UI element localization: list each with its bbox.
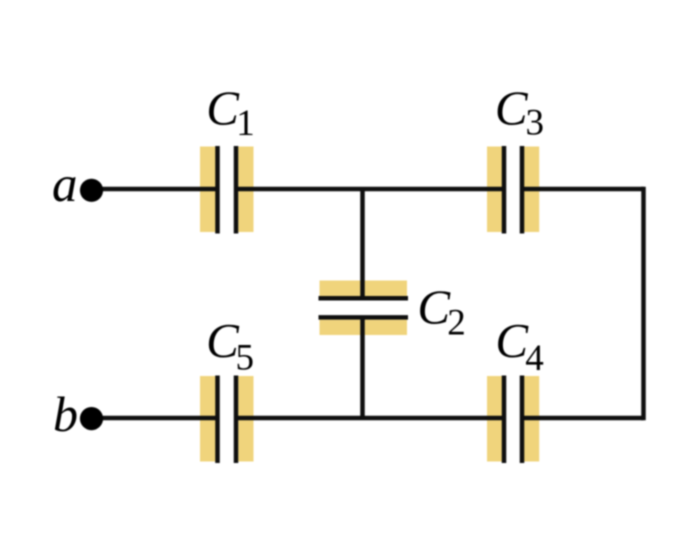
svg-text:b: b bbox=[53, 386, 78, 442]
svg-text:C: C bbox=[495, 313, 529, 368]
svg-text:3: 3 bbox=[526, 103, 545, 144]
svg-text:C: C bbox=[417, 280, 451, 335]
svg-text:4: 4 bbox=[525, 338, 544, 379]
svg-text:5: 5 bbox=[236, 337, 255, 378]
svg-text:2: 2 bbox=[447, 302, 466, 343]
svg-text:a: a bbox=[52, 157, 78, 213]
svg-text:1: 1 bbox=[236, 103, 255, 144]
svg-text:C: C bbox=[206, 81, 240, 136]
svg-text:C: C bbox=[495, 81, 529, 136]
